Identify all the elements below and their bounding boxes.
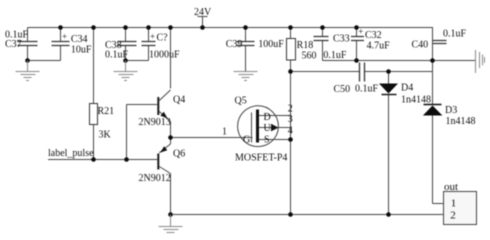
svg-text:0.1uF: 0.1uF: [323, 50, 347, 61]
svg-text:560: 560: [302, 51, 317, 62]
svg-text:S: S: [264, 134, 270, 145]
svg-text:C39: C39: [226, 39, 243, 50]
svg-text:C33: C33: [333, 33, 350, 44]
svg-text:24V: 24V: [194, 7, 212, 18]
svg-text:0.1uF: 0.1uF: [443, 29, 467, 40]
svg-text:MOSFET-P4: MOSFET-P4: [235, 152, 287, 163]
svg-text:Q6: Q6: [173, 149, 185, 160]
svg-text:D: D: [264, 112, 271, 123]
svg-text:0.1uF: 0.1uF: [355, 84, 379, 95]
svg-text:out: out: [444, 181, 458, 193]
svg-text:1: 1: [222, 126, 227, 137]
svg-text:+: +: [62, 31, 67, 41]
svg-text:R18: R18: [297, 40, 314, 51]
svg-text:1000uF: 1000uF: [149, 49, 180, 60]
svg-text:C32: C32: [365, 30, 382, 41]
svg-text:0.1uF: 0.1uF: [105, 50, 129, 61]
svg-text:U: U: [264, 123, 272, 134]
svg-text:2N9012: 2N9012: [139, 173, 171, 184]
svg-text:1: 1: [451, 198, 457, 210]
svg-text:100uF: 100uF: [258, 39, 284, 50]
svg-text:+: +: [358, 26, 363, 36]
svg-text:4.7uF: 4.7uF: [367, 41, 391, 52]
svg-text:+: +: [150, 32, 155, 42]
svg-text:C34: C34: [71, 34, 88, 45]
svg-text:3K: 3K: [99, 129, 112, 140]
svg-text:1n4148: 1n4148: [401, 95, 431, 106]
svg-text:2N9013: 2N9013: [139, 117, 171, 128]
svg-text:G: G: [243, 134, 250, 145]
svg-text:C?: C?: [157, 32, 169, 43]
svg-text:D4: D4: [401, 82, 413, 93]
svg-text:Q5: Q5: [235, 96, 247, 107]
svg-text:1n4148: 1n4148: [446, 116, 476, 127]
svg-text:Q4: Q4: [173, 95, 185, 106]
svg-text:label_pulse: label_pulse: [48, 148, 94, 159]
svg-text:D3: D3: [445, 105, 457, 116]
svg-text:2: 2: [450, 210, 456, 222]
svg-text:R21: R21: [98, 106, 115, 117]
svg-text:10uF: 10uF: [71, 45, 92, 56]
svg-text:3: 3: [288, 114, 293, 125]
svg-text:C40: C40: [412, 40, 429, 51]
svg-text:4: 4: [288, 125, 293, 136]
svg-text:C37: C37: [5, 39, 22, 50]
svg-text:C50: C50: [334, 84, 351, 95]
